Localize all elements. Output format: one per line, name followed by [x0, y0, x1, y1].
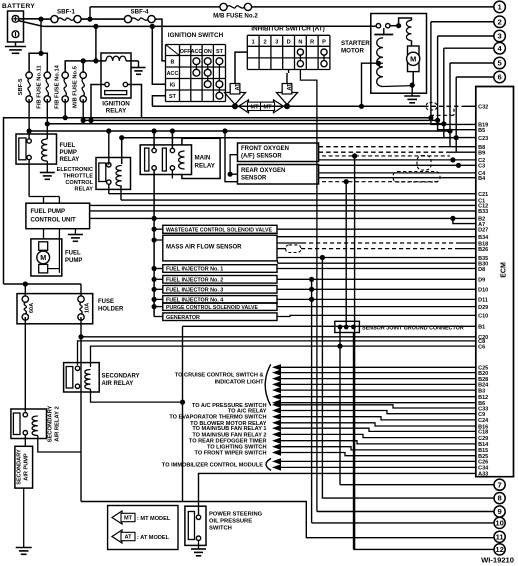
wire MAF to B34 [277, 236, 476, 238]
connector 9 [494, 506, 505, 517]
secondary air relay coil [85, 370, 91, 390]
wire inhibitor N column down to connector 9 [300, 70, 317, 512]
svg-text:1: 1 [252, 40, 255, 46]
wire fuse No.14 down to bus [64, 99, 66, 118]
wire SBF-5 rail down to fuel pump relay contact [28, 99, 30, 141]
svg-text:M/B FUSE No.2: M/B FUSE No.2 [213, 13, 258, 20]
svg-text:TO A/C RELAY: TO A/C RELAY [228, 409, 267, 415]
connector 5 wire [450, 62, 494, 64]
svg-text:MOTOR: MOTOR [341, 48, 364, 55]
node fuse holder feed left [23, 281, 28, 286]
brace immobilizer group [266, 458, 271, 470]
wire arrow TO A/C RELAY [272, 407, 281, 413]
svg-text:C9: C9 [478, 412, 485, 418]
svg-text:THROTTLE: THROTTLE [63, 174, 93, 180]
fuel pump relay armature [19, 138, 26, 160]
main relay armature 2 [162, 148, 166, 171]
wire front O2 shield down to sensor joint connector [354, 156, 356, 550]
etc relay contacts [107, 163, 111, 167]
switch INHIBITOR SWITCH table [246, 35, 248, 69]
relay ELECTRONIC THROTTLE CONTROL RELAY box [96, 158, 131, 190]
wire FUEL INJECTOR No. 2 to D9 [277, 278, 476, 280]
svg-text:BATTERY: BATTERY [2, 3, 35, 10]
svg-text:ACC: ACC [191, 49, 203, 55]
main relay armature 1 [145, 148, 149, 171]
wire B2 line from fuel pump control unit [90, 217, 476, 219]
sensor FRONT OXYGEN (A/F) SENSOR box [238, 143, 319, 162]
wire generator feed [154, 316, 163, 318]
svg-text:D11: D11 [478, 298, 488, 304]
wire battery direct feed y26 to starter contact [43, 25, 376, 27]
wire 10A fuse down (C20 rail) [80, 317, 82, 502]
connector 4 [494, 42, 506, 54]
wire etc relay contact out to C21 [108, 184, 110, 193]
shield capsule B26 [286, 245, 302, 253]
svg-text:D: D [287, 40, 291, 46]
wire SBF-1 to node B [81, 18, 125, 20]
node injector 3 power tap [309, 287, 314, 292]
node rear O2 shield drop [344, 179, 349, 184]
node O2 ground link [228, 172, 233, 177]
relay SECONDARY AIR RELAY 2 box [11, 409, 47, 439]
svg-text:MT: MT [250, 105, 259, 111]
wire control unit to fuel pump [43, 229, 45, 239]
svg-text:IG: IG [170, 83, 176, 89]
connector 11 [494, 531, 505, 542]
wire secondary air relay coil bottom to junction [91, 389, 183, 402]
svg-text:CONTROL: CONTROL [65, 180, 93, 186]
wire big loop to connector 11 [81, 502, 494, 538]
svg-text:IGNITION: IGNITION [102, 101, 130, 108]
svg-text:RELAY: RELAY [195, 163, 216, 170]
wire generator to C10 [277, 315, 476, 316]
svg-text:PUMP: PUMP [60, 150, 77, 156]
wire ignition switch IG row feed [152, 26, 165, 84]
wire main relay contact feeds from bus [153, 131, 155, 148]
node secondary air relay coil junction [180, 400, 185, 405]
svg-text:SECONDARY: SECONDARY [17, 449, 23, 485]
node battery fuse feed [38, 51, 43, 56]
wire connector 10 bottom bend [312, 522, 494, 524]
wire MAF to B18 (shielded) [277, 242, 302, 244]
wire air pump to ground [23, 488, 25, 547]
node MT/AT right junction [284, 103, 290, 109]
svg-text:TO MAIN/SUB FAN RELAY 1: TO MAIN/SUB FAN RELAY 1 [192, 426, 266, 432]
svg-text:12: 12 [495, 545, 503, 554]
wire connector 12 bottom bend [354, 548, 494, 550]
svg-text:9: 9 [497, 507, 501, 516]
node ignition relay coil feed [93, 58, 98, 63]
wire rear O2 to B4 [319, 177, 476, 179]
holder FUSE HOLDER box [17, 294, 93, 324]
wire FUEL INJECTOR No. 1 feed [152, 266, 157, 271]
svg-text:M: M [40, 253, 46, 262]
legend arrow AT [112, 530, 134, 543]
motor STARTER MOTOR box [371, 14, 427, 94]
svg-text:6: 6 [497, 73, 501, 82]
wire C6 line from secondary air relay coil [91, 346, 476, 367]
node starter solenoid tap [376, 61, 381, 66]
wire arrow TO LIGHTING SWITCH [272, 444, 281, 450]
wire main B+ line to SBF-1 [41, 18, 51, 20]
svg-text:FUEL INJECTOR No. 3: FUEL INJECTOR No. 3 [166, 288, 223, 294]
wire front O2 to C3 [319, 164, 476, 166]
svg-text:10: 10 [495, 519, 503, 528]
shield capsule C4/B4 [393, 172, 440, 183]
wire FUEL INJECTOR No. 3 to D10 [277, 288, 476, 290]
svg-text:AT: AT [235, 83, 241, 91]
wire C32 dashed segment [424, 105, 466, 107]
wire arrow TO EVAPORATOR THERMO SWITCH [272, 414, 281, 420]
wire A7 branch [453, 218, 476, 223]
svg-text:SBF-4: SBF-4 [131, 9, 149, 16]
connector 10 [494, 517, 505, 528]
svg-text:OFF: OFF [180, 49, 191, 55]
injector FUEL INJECTOR No. 1 box [163, 265, 277, 273]
svg-text:RELAY: RELAY [75, 187, 94, 193]
legend arrow MT [112, 511, 134, 524]
connector 3 wire [438, 35, 494, 37]
svg-text:8: 8 [497, 494, 501, 503]
svg-text:: MT MODEL: : MT MODEL [137, 516, 171, 522]
shield capsule C2/C3 [417, 156, 431, 171]
node B35 drop to connector 8 [320, 255, 325, 260]
svg-text:PUMP: PUMP [65, 258, 82, 264]
secondary air relay 2 armature [13, 413, 20, 435]
switch POWER STEERING OIL PRESSURE SWITCH box [185, 506, 206, 545]
node B2 rail junction [152, 216, 157, 221]
svg-text:11: 11 [496, 532, 505, 541]
node starter contact junction [396, 23, 401, 28]
sensor joint ground connector pins [338, 325, 343, 330]
wire C8 line from secondary air relay contact [78, 341, 476, 365]
pump FUEL PUMP box [31, 239, 62, 276]
wire bus y137.7 (ETC relay coil feed) [122, 138, 457, 164]
node MT/AT left junction [232, 103, 238, 109]
wire bus y117.7 (ignition relay out) [4, 118, 431, 284]
wire fp relay contact out to control unit [28, 160, 30, 197]
svg-text:N: N [298, 40, 302, 46]
wire coil to motor [411, 41, 413, 47]
svg-text:WI-19210: WI-19210 [481, 556, 514, 565]
secondary air relay contacts [75, 366, 79, 370]
node C3 tap [456, 163, 461, 168]
svg-text:RELAY: RELAY [106, 108, 127, 115]
fuse 10A [78, 296, 84, 302]
svg-text:SECONDARY: SECONDARY [102, 374, 140, 380]
svg-text:FUEL INJECTOR No. 1: FUEL INJECTOR No. 1 [166, 267, 223, 273]
connector 4 wire [444, 47, 494, 49]
node rear O2 heater feed tap [222, 128, 227, 133]
svg-text:3: 3 [275, 40, 278, 46]
wire control unit to ground [74, 229, 76, 235]
svg-text:C29: C29 [478, 436, 488, 442]
solenoid WASTEGATE CONTROL SOLENOID VALVE box [163, 225, 277, 233]
ground (fuel pump control unit) [68, 234, 83, 236]
ignition switch contact circles [195, 61, 197, 72]
main relay contacts 2 [170, 148, 174, 152]
svg-text:D9: D9 [478, 278, 485, 284]
wire starter solenoid to C32 bus [362, 63, 379, 106]
wire purge valve to D29 [277, 306, 476, 308]
relay MAIN RELAY box [140, 145, 191, 175]
starter motor contacts [376, 24, 380, 28]
svg-text:SWITCH: SWITCH [209, 526, 232, 532]
svg-text:D29: D29 [478, 305, 488, 311]
battery [8, 11, 24, 42]
svg-text:FUEL INJECTOR No. 2: FUEL INJECTOR No. 2 [166, 278, 223, 284]
wire relay 2 contact to air pump [24, 435, 26, 446]
wire D27 line from wastegate valve [277, 228, 476, 230]
etc relay coil [116, 166, 122, 187]
wire bus y120.4 [83, 119, 437, 121]
svg-text:B9: B9 [478, 151, 485, 157]
svg-text:C3: C3 [478, 164, 485, 170]
wire connector 9 bottom bend [317, 511, 494, 513]
node C6 shield tap [337, 344, 342, 349]
wire power steering switch to ground [198, 540, 200, 549]
injector FUEL INJECTOR No. 2 box [163, 276, 277, 284]
wire MAF to B26 (shielded) [277, 248, 286, 250]
svg-text:ST: ST [169, 94, 177, 100]
wire front O2 to C2 [319, 159, 476, 161]
svg-text:AT: AT [124, 535, 132, 541]
etc relay armature [99, 163, 106, 182]
connector 2 [494, 16, 506, 28]
wire arrow TO FRONT WIPER SWITCH [272, 449, 281, 455]
starter motor armature M [408, 46, 420, 72]
unit FUEL PUMP CONTROL UNIT box [26, 203, 90, 229]
svg-text:FUEL PUMP: FUEL PUMP [31, 209, 66, 215]
svg-text:C32: C32 [478, 105, 488, 111]
connector 2 wire [431, 21, 494, 23]
wire motor to ground node [412, 72, 414, 86]
node fuse No.5 feed [81, 58, 86, 63]
svg-text:OIL PRESSURE: OIL PRESSURE [209, 519, 252, 525]
relay SECONDARY AIR RELAY box [64, 363, 100, 392]
wire rear O2 heater feed from bus y131 [225, 131, 238, 182]
wire battery+ to node A [19, 18, 41, 20]
connector 6 wire [456, 76, 494, 78]
svg-text:FUSE: FUSE [98, 299, 114, 305]
wire wastegate feed [152, 227, 157, 232]
connector SENSOR JOINT GROUND CONNECTOR box [335, 321, 360, 332]
main relay contacts 1 [152, 148, 156, 152]
wire M/B FUSE No.2 line to connector 1 [90, 6, 220, 8]
svg-text:B1: B1 [478, 325, 485, 331]
sensor REAR OXYGEN SENSOR box [238, 165, 319, 185]
shield dashed return below C32 [430, 114, 454, 116]
svg-text:A33: A33 [478, 472, 488, 478]
wire MAF to B35 [277, 257, 476, 259]
power steering switch contacts [196, 515, 200, 519]
wire connector 4 drop to C23 [444, 48, 476, 137]
ignition relay contacts [105, 82, 109, 86]
svg-text:TO EVAPORATOR THERMO SWITCH: TO EVAPORATOR THERMO SWITCH [169, 415, 266, 421]
wire C21 line from etc relay [109, 193, 476, 195]
wire inhibitor row to left AT arrow [235, 52, 247, 85]
wire connector 7 bottom bend [340, 484, 494, 486]
wire C20 line from 10A fuse rail [81, 336, 476, 338]
power steering switch element [188, 512, 194, 540]
wire FUEL INJECTOR No. 2 feed [152, 277, 157, 282]
relay MAIN RELAY outer box [182, 138, 220, 178]
wire injector power drop to connector 10 [311, 279, 313, 523]
svg-text:3: 3 [497, 32, 501, 41]
svg-text:HOLDER: HOLDER [98, 307, 124, 313]
svg-text:AIR RELAY: AIR RELAY [102, 381, 134, 387]
node solenoid drop on C32 bus [359, 104, 364, 109]
svg-text:R: R [310, 40, 314, 46]
svg-text:M/B FUSE No.5: M/B FUSE No.5 [73, 65, 79, 108]
svg-text:SENSOR JOINT GROUND CONNECTOR: SENSOR JOINT GROUND CONNECTOR [362, 326, 464, 332]
svg-text:MT: MT [263, 105, 272, 111]
solenoid PURGE CONTROL SOLENOID VALVE box [163, 303, 277, 311]
wire ignition switch ST row to C32 bus [152, 96, 165, 107]
svg-text:D8: D8 [478, 267, 485, 273]
wire front O2 to B9 (shielded) [319, 151, 449, 153]
wire arrow TO MAIN/SUB FAN RELAY 1 [272, 425, 281, 431]
node B2 to A7 branch [450, 216, 455, 221]
wire fuse feed line y53 with corners to SBF-5 / fuse No.11 [29, 53, 47, 75]
node C2 tap [450, 157, 455, 162]
secondary air relay 2 coil [32, 416, 38, 436]
svg-text:GENERATOR: GENERATOR [166, 315, 200, 321]
wire rear O2 to C4 [319, 172, 476, 174]
svg-text:TO FRONT WIPER SWITCH: TO FRONT WIPER SWITCH [195, 451, 267, 457]
wire inhibitor D column to right AT arrow [288, 70, 290, 74]
wire etc relay coil out to C1 [120, 186, 122, 200]
svg-text:MT: MT [124, 516, 133, 522]
svg-text:60A: 60A [29, 303, 35, 313]
svg-text:INDICATOR LIGHT: INDICATOR LIGHT [215, 379, 264, 385]
svg-text:SECONDARY: SECONDARY [48, 405, 54, 442]
ground (battery) [15, 42, 17, 47]
ground (power steering switch) [191, 548, 206, 550]
wire arrow TO REAR DEFOGGER TIMER [272, 438, 281, 444]
injector FUEL INJECTOR No. 4 box [163, 296, 277, 304]
svg-text:C23: C23 [478, 136, 488, 142]
wire arrow TO A/C PRESSURE SWITCH [272, 402, 281, 408]
svg-text:ST: ST [216, 49, 224, 55]
svg-text:POWER STEERING: POWER STEERING [209, 512, 263, 518]
wire B30 line from MAF bottom corner [276, 261, 279, 263]
main relay coil [179, 151, 185, 169]
shield dashed line front O2 pair [322, 155, 450, 157]
fuel pump relay contacts [27, 139, 31, 143]
connector 3 [494, 30, 506, 42]
secondary air relay armature [66, 367, 73, 389]
ground (starter motor) [411, 85, 413, 96]
svg-text:PURGE CONTROL SOLENOID VALVE: PURGE CONTROL SOLENOID VALVE [166, 305, 258, 311]
wire 60A fuse down to secondary air relay 2 [24, 317, 26, 412]
legend box MT/AT MODEL [108, 506, 178, 550]
node injector 2 power tap [309, 277, 314, 282]
wire control unit feeds [29, 196, 59, 198]
svg-text:D27: D27 [478, 228, 488, 234]
wire fp relay coil to ground [46, 161, 48, 173]
connector arrow AT (right) [277, 85, 298, 105]
node front O2 shield drop [352, 153, 357, 158]
pump SECONDARY AIR PUMP box [15, 446, 33, 488]
fuel pump motor M [39, 242, 48, 251]
svg-text:C6: C6 [478, 344, 485, 350]
wire SBF-4 to ignition switch B row [155, 19, 166, 61]
node bus y131 left [27, 128, 32, 133]
wire arrows TO CRUISE CONTROL SWITCH & INDICATOR LIGHT [272, 364, 281, 370]
fuse 60A [22, 296, 28, 302]
wire connector 3 drop to B5 [438, 36, 476, 130]
svg-text:AT: AT [287, 83, 293, 91]
connector 5 [494, 57, 506, 69]
svg-text:FUEL: FUEL [65, 251, 81, 257]
svg-text:D10: D10 [478, 288, 488, 294]
inhibitor switch contact circles (N and P) [299, 52, 301, 64]
wire fuse No.5 down to bus [82, 99, 84, 120]
wire node B up to M/B FUSE No.2 line [89, 7, 91, 19]
svg-text:B: B [171, 60, 175, 66]
wire ignition relay right contact to bus y117.7 [128, 85, 142, 118]
svg-text:7: 7 [497, 480, 501, 489]
wire connector 5 drop to B8 [450, 63, 476, 147]
svg-text:IGNITION SWITCH: IGNITION SWITCH [168, 32, 224, 39]
wire C32 bus from ignition ST [152, 105, 424, 107]
secondary air relay 2 contacts [23, 413, 27, 417]
svg-text:P: P [322, 40, 326, 46]
wire B1 line [183, 325, 476, 327]
sensor MASS AIR FLOW SENSOR box [163, 235, 277, 261]
wire fuse feed line y61 to ignition relay coil [65, 61, 96, 75]
svg-text:C18: C18 [478, 430, 488, 436]
switch IGNITION SWITCH table [165, 45, 167, 102]
wire etc relay contact feed [108, 131, 110, 165]
svg-text:: AT MODEL: : AT MODEL [137, 535, 170, 541]
svg-text:SENSOR: SENSOR [241, 176, 267, 182]
wire purge valve feed [152, 304, 157, 309]
wire fuse No.11 rail down to fuel pump relay coil [46, 99, 48, 139]
node A (battery + junction) [38, 17, 43, 22]
svg-text:MASS AIR FLOW SENSOR: MASS AIR FLOW SENSOR [166, 245, 242, 251]
svg-text:ECM: ECM [501, 262, 508, 278]
wire arrow TO BLOWER MOTOR RELAY [272, 420, 281, 426]
connector arrow MT (left) [239, 100, 261, 113]
wire bus y131 (relay feed bus) [29, 130, 450, 132]
starter solenoid coil [377, 38, 383, 87]
svg-text:2: 2 [263, 40, 266, 46]
connector 1 wire [494, 1, 506, 13]
injector FUEL INJECTOR No. 3 box [163, 286, 277, 294]
svg-text:(A/F) SENSOR: (A/F) SENSOR [241, 154, 282, 160]
connector arrow AT (left) [225, 85, 246, 105]
wire diagonal battery+ to y26 feed [19, 21, 44, 27]
svg-text:ON: ON [204, 49, 212, 55]
wire starter contact to field coil [399, 18, 412, 26]
svg-text:SBF-5: SBF-5 [18, 78, 24, 96]
svg-text:TO MAIN/SUB FAN RELAY 2: TO MAIN/SUB FAN RELAY 2 [192, 432, 266, 438]
generator GENERATOR box [163, 313, 277, 321]
svg-text:INHIBITOR SWITCH (AT): INHIBITOR SWITCH (AT) [251, 26, 325, 33]
svg-text:SBF-1: SBF-1 [57, 9, 75, 16]
starter solenoid plunger bar [374, 34, 393, 36]
shield dashed line rear O2 pair [322, 181, 440, 183]
svg-text:B33: B33 [478, 209, 488, 215]
starter field coil [406, 20, 411, 40]
svg-text:M: M [410, 55, 416, 64]
ignition relay coil [96, 60, 106, 62]
module ECM box [476, 87, 514, 477]
wire main relay contact2 down [171, 170, 173, 178]
svg-text:10A: 10A [85, 303, 91, 313]
